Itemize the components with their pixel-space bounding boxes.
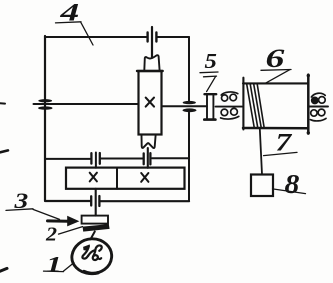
svg-text:1: 1 [46, 252, 62, 276]
svg-text:7: 7 [276, 129, 294, 156]
svg-text:5: 5 [205, 50, 217, 73]
svg-text:8: 8 [285, 170, 300, 199]
svg-text:4: 4 [59, 0, 79, 26]
svg-text:2: 2 [45, 222, 58, 245]
svg-text:6: 6 [266, 45, 286, 74]
svg-text:3: 3 [13, 189, 28, 213]
